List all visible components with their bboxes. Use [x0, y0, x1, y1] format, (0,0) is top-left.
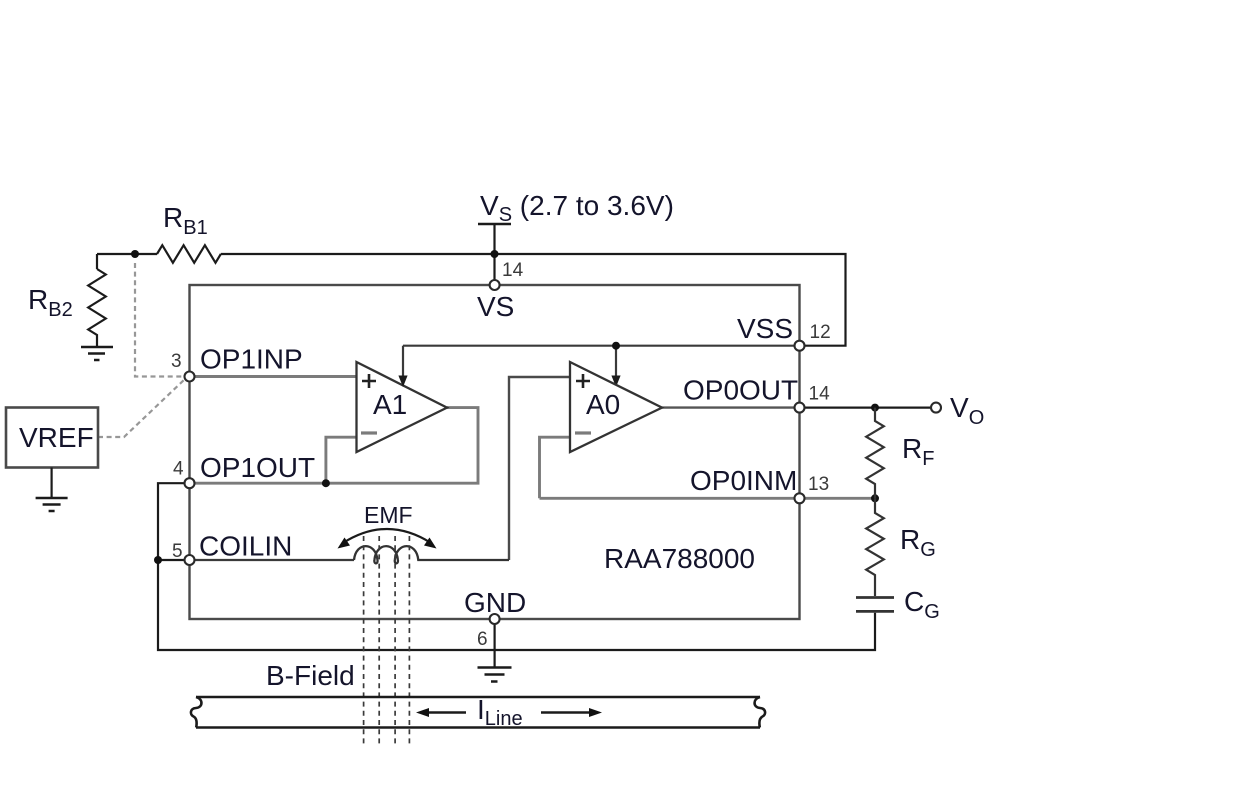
internal wire OP1OUT feedback run [194, 408, 478, 484]
svg-text:VSS: VSS [737, 313, 793, 344]
pin 14 circle [490, 280, 500, 290]
VREF box [6, 408, 98, 468]
svg-text:5: 5 [172, 541, 183, 562]
ground GND pin [478, 668, 512, 682]
wire VREF ground stub [50, 468, 52, 498]
internal wire OP0OUT run [662, 406, 795, 408]
resistor RG [866, 498, 884, 596]
EMF arc arrow [343, 529, 431, 543]
B-field dashed lines [364, 536, 410, 746]
svg-text:OP1OUT: OP1OUT [200, 452, 315, 483]
op-amp A0 [570, 362, 662, 452]
internal wire OP1INP to A1+ [194, 375, 356, 378]
pin 14 right circle [795, 403, 805, 413]
wire left drop to RB2 [96, 254, 98, 269]
node A0 arrow junction [612, 342, 620, 350]
svg-text:12: 12 [810, 322, 831, 343]
internal wire A1 minus branch [326, 437, 356, 483]
svg-text:OP0OUT: OP0OUT [683, 375, 798, 406]
conductor tube ILine [191, 697, 765, 728]
wire VS stub [493, 224, 495, 281]
arrow ILine left [428, 711, 466, 713]
svg-text:3: 3 [171, 351, 182, 372]
wire arrow into A0 [615, 346, 617, 377]
wire GND stub [494, 619, 496, 667]
wire OP0INM external [804, 497, 875, 500]
node junction RB1-RB2 [131, 250, 139, 258]
svg-text:OP1INP: OP1INP [200, 344, 303, 375]
node COILIN junction [154, 556, 162, 564]
svg-text:VREF: VREF [19, 422, 94, 453]
svg-text:OP0INM: OP0INM [690, 465, 797, 496]
node RF bottom junction [871, 494, 879, 502]
svg-text:A1: A1 [373, 389, 407, 420]
svg-text:4: 4 [173, 459, 184, 480]
internal wire OP0INM run [540, 497, 796, 500]
resistor RF [866, 408, 884, 499]
op-amp A1 [357, 362, 448, 452]
wire COILIN baseline [194, 559, 354, 561]
terminal VO [931, 403, 941, 413]
ground RB2 [81, 347, 113, 360]
inductor coil [354, 546, 509, 563]
svg-text:A0: A0 [586, 389, 620, 420]
svg-text:RAA788000: RAA788000 [604, 543, 755, 574]
internal VSS rail to op-amps [403, 345, 795, 347]
node A1 feedback junction [322, 479, 330, 487]
svg-text:14: 14 [809, 384, 831, 405]
wire pin4 pin5 external left drop [158, 483, 875, 650]
resistor RB1 [157, 245, 221, 263]
node RF top junction [871, 404, 879, 412]
pin 13 circle [795, 493, 805, 503]
pin 4 circle [185, 478, 195, 488]
svg-text:VS: VS [477, 291, 514, 322]
pin 6 circle [490, 614, 500, 624]
internal wire coil to A0+ [509, 377, 570, 560]
svg-text:13: 13 [808, 474, 829, 495]
svg-text:6: 6 [477, 629, 488, 650]
wire top supply rail [97, 254, 846, 346]
dashed link VREF to pin 3 [98, 379, 185, 437]
arrow ILine right [541, 711, 590, 713]
pin 3 circle [185, 372, 195, 382]
node supply junction [491, 250, 499, 258]
pin 12 circle [795, 341, 805, 351]
internal wire A0 minus loop [540, 437, 571, 498]
svg-text:14: 14 [502, 260, 524, 281]
capacitor CG [856, 598, 894, 612]
wire arrow into A1 [402, 346, 404, 377]
svg-text:COILIN: COILIN [199, 531, 292, 562]
wire OP0OUT to VO [804, 407, 932, 409]
resistor RB2 [88, 269, 106, 346]
ground VREF [36, 498, 68, 511]
svg-text:B-Field: B-Field [266, 660, 355, 691]
pin 5 circle [185, 555, 195, 565]
dashed link RB junction to pin 3 [135, 263, 184, 377]
svg-text:EMF: EMF [364, 502, 413, 528]
IC box RAA788000 [190, 285, 800, 619]
supply VS terminal bar [478, 223, 511, 226]
